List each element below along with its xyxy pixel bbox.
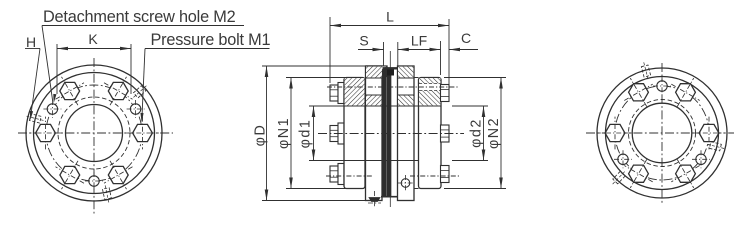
left collar hatch top [345,78,365,105]
dimension S [383,42,385,66]
right view hex bolt at 270 deg [599,117,632,150]
left collar outline [344,78,365,189]
disc pack right bar [387,70,391,198]
right view hex bolt at 210 deg [624,160,652,188]
left view hex bolt at 270 deg [29,117,62,150]
right bolt head middle [441,125,450,142]
dimension phi-D [262,65,367,67]
right flange hatch upper [398,67,413,78]
right flange rim [409,66,414,77]
pack bottom cap [381,196,397,198]
left view screw hole at 180 deg [85,172,103,190]
left view hex bolt at 90 deg [126,117,159,150]
section top bolt axis [327,86,459,88]
right view hidden screw hole at 224 deg [610,169,627,187]
right view hidden circle [629,100,696,167]
left flange outline [366,66,383,201]
dimension phi-N2 [444,77,506,79]
bottom bolt head [369,198,380,202]
dimension LF [440,41,442,75]
right view ring circle [606,77,719,190]
left flange bolt hole lines [366,77,383,79]
left flange hatch upper [366,67,386,78]
section shaft centerline [318,133,464,135]
right view hex bolt at 90 deg [693,117,726,150]
top bolt nut [387,70,394,76]
left view screw hole at 300 deg [43,100,61,118]
section bottom-right bolt axis [410,175,459,177]
right view screw hole at 124 deg [692,150,710,168]
left view bore circle [66,105,123,162]
right view outer circle [597,68,727,198]
right view screw hole at 0 deg [653,77,671,95]
pack top cap [383,67,398,69]
right view hex bolt at 30 deg [671,78,699,106]
left view hidden screw hole at 48 deg [131,83,149,100]
svg-text:C: C [461,30,471,46]
right flange bolt hole lines [398,77,415,79]
right bolt head bottom [441,166,450,183]
left view hex bolt at 150 deg [104,161,133,189]
svg-text:L: L [386,9,394,25]
right hub bore line top [398,105,442,107]
right view bolt circle [615,86,709,180]
dimension L [329,17,331,83]
svg-text:K: K [88,31,98,47]
dimension K [56,44,58,94]
svg-text:LF: LF [411,33,427,49]
right view bore circle [632,103,692,163]
pack bottom center tick [389,197,391,207]
left pressure bolt head middle [330,123,344,144]
left view ring circle [34,73,155,194]
left view hex bolt at 210 deg [56,161,85,189]
left pressure bolt head bottom [330,164,344,185]
right hub barrel top [414,77,419,79]
right hub bore line bottom [398,160,442,162]
section bottom-left bolt axis [326,175,372,177]
dimension phi-d1 [309,105,346,107]
pack top center tick [389,51,391,70]
right flange outline [398,66,415,201]
left flange rim [366,66,388,77]
svg-text:Pressure bolt M1: Pressure bolt M1 [151,31,271,49]
svg-text:S: S [359,33,368,49]
dimension C [449,49,478,51]
svg-text:Detachment screw hole M2: Detachment screw hole M2 [43,8,236,26]
right collar hatch top [419,78,440,105]
set screw hole [401,179,410,188]
left view outer circle [26,65,162,201]
dimension phi-d2 [452,105,488,107]
right view screw hole at 236 deg [614,150,632,168]
left view horizontal centerline [18,132,173,134]
left view hidden screw hole at 284 deg [26,113,45,124]
left collar section line [344,105,365,107]
left view hidden screw hole at 168 deg [102,184,112,203]
right hub barrel bottom [414,188,419,190]
left view screw hole at 60 deg [127,100,145,118]
disc pack left bar [382,70,386,198]
right flange hatch lower [398,95,413,105]
dimension phi-N1 [286,77,346,79]
left view hex bolt at 330 deg [56,77,85,105]
left view bolt circle [46,85,142,181]
left flange hatch lower [366,95,381,105]
left hub bore line top [344,105,398,107]
svg-text:φN1: φN1 [276,117,292,149]
left view vertical centerline [93,58,95,216]
right collar section line [419,105,442,107]
left view hidden circle [58,97,130,169]
right view hex bolt at 330 deg [624,78,652,106]
svg-text:φD: φD [253,124,269,147]
left pressure bolt head top [330,83,344,104]
right view hidden screw hole at 104 deg [706,141,725,152]
right bolt head top [441,85,450,102]
left view hex bolt at 30 deg [104,77,133,105]
right view hex bolt at 150 deg [671,160,699,188]
svg-text:φN2: φN2 [486,117,502,149]
right view vertical centerline [661,63,663,203]
right view hidden screw hole at 345.5 deg [640,61,651,80]
left hub bore line bottom [344,160,398,162]
svg-text:H: H [26,34,36,50]
right collar outline [419,78,442,189]
svg-text:φd2: φd2 [469,118,485,148]
svg-text:φd1: φd1 [298,119,314,149]
right collar bolt hole [419,84,440,91]
right view horizontal centerline [586,132,734,134]
